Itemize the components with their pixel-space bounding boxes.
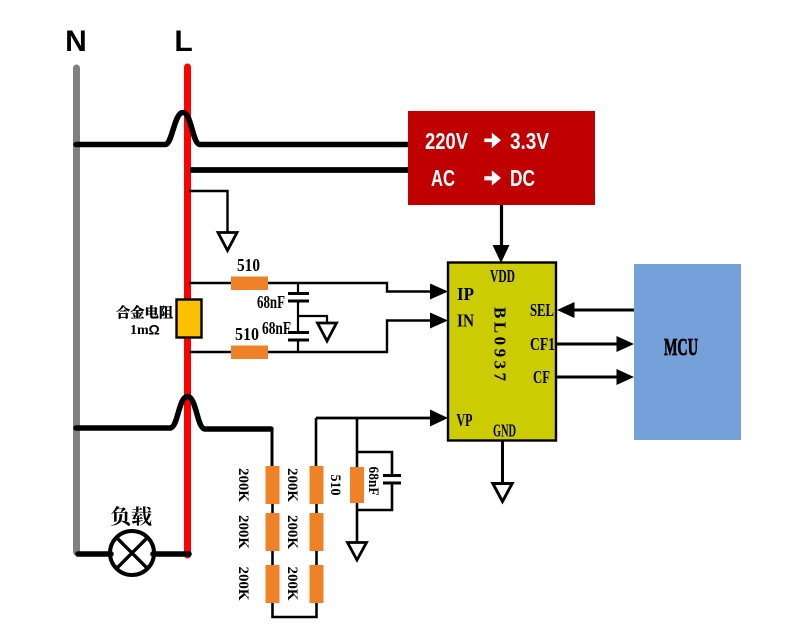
arrow CF1 into MCU bbox=[617, 336, 635, 352]
ground G4 (open triangle) bbox=[348, 543, 367, 561]
svg-text:IP: IP bbox=[457, 284, 474, 304]
arrow into IP bbox=[430, 284, 448, 300]
wire CF to MCU bbox=[556, 376, 617, 379]
svg-text:68nF: 68nF bbox=[257, 292, 285, 312]
wire load drop to divider bbox=[271, 428, 274, 466]
wire R4-R5 bbox=[271, 551, 274, 565]
wire lamp to L bbox=[153, 551, 189, 557]
wire R6-R7 bbox=[315, 504, 318, 513]
resistor R2 510 bbox=[231, 346, 268, 360]
wire L to converter bbox=[190, 167, 408, 173]
resistor R3 200K bbox=[266, 466, 280, 504]
arrow into SEL bbox=[557, 302, 575, 318]
wire R9 branch bbox=[356, 418, 359, 467]
label load 负载 bbox=[111, 506, 152, 526]
svg-text:AC: AC bbox=[431, 165, 455, 191]
wire gray to lamp bbox=[78, 551, 111, 557]
svg-text:510: 510 bbox=[235, 324, 259, 344]
svg-text:510: 510 bbox=[327, 475, 343, 496]
svg-text:N: N bbox=[65, 25, 87, 58]
label alloy resistor 合金电阻 bbox=[116, 305, 173, 318]
chip BL0937 body bbox=[448, 263, 556, 441]
svg-text:510: 510 bbox=[237, 255, 260, 275]
wire load line bottom with hop bbox=[76, 397, 271, 430]
converter arrow 1 bbox=[484, 133, 501, 149]
ground G1 (open triangle) bbox=[218, 233, 237, 251]
svg-text:1m: 1m bbox=[130, 323, 149, 338]
wire neutral line N (gray vertical) bbox=[73, 68, 80, 552]
AC-DC converter box bbox=[408, 111, 595, 205]
wire divider bottom link bbox=[273, 603, 317, 617]
arrow into VDD bbox=[493, 245, 510, 263]
wire SEL from MCU bbox=[574, 309, 634, 312]
capacitor C2 68nF bbox=[297, 302, 299, 331]
MCU box bbox=[634, 264, 741, 440]
svg-text:CF1: CF1 bbox=[530, 334, 555, 354]
wire VDD supply bbox=[500, 205, 503, 246]
converter arrow 2 bbox=[484, 170, 501, 186]
resistor R6 200K bbox=[310, 466, 324, 504]
svg-text:200K: 200K bbox=[284, 515, 300, 550]
svg-text:MCU: MCU bbox=[664, 335, 698, 361]
svg-text:VP: VP bbox=[457, 410, 473, 430]
svg-text:SEL: SEL bbox=[530, 300, 554, 320]
wire R3-R4 bbox=[271, 504, 274, 513]
wire caps midpoint to ground bbox=[298, 316, 327, 323]
svg-text:220V: 220V bbox=[425, 128, 469, 154]
ground G2 (open triangle) bbox=[318, 323, 337, 341]
arrow into IN bbox=[430, 313, 448, 329]
wire R9 bottom to ground bbox=[356, 503, 359, 543]
wire GND to ground bbox=[501, 441, 504, 484]
shunt resistor (alloy) body bbox=[177, 300, 202, 338]
svg-text:68nF: 68nF bbox=[365, 467, 381, 496]
wire top N horizontal with hop bbox=[76, 113, 408, 145]
resistor R1 510 bbox=[231, 277, 268, 291]
resistor R5 200K bbox=[266, 565, 280, 603]
svg-text:DC: DC bbox=[510, 165, 535, 191]
load lamp symbol bbox=[110, 531, 154, 575]
svg-text:CF: CF bbox=[533, 367, 550, 387]
svg-text:L: L bbox=[174, 25, 192, 58]
svg-text:VDD: VDD bbox=[490, 266, 515, 286]
wire L tap to ground bbox=[189, 191, 228, 232]
resistor R4 200K bbox=[266, 513, 280, 551]
svg-text:200K: 200K bbox=[235, 468, 251, 503]
resistor R8 200K bbox=[310, 565, 324, 603]
wire IN sense (lower) bbox=[189, 321, 431, 353]
svg-text:GND: GND bbox=[493, 421, 516, 441]
svg-text:200K: 200K bbox=[235, 515, 251, 550]
resistor R9 510 bbox=[350, 467, 364, 503]
wire VP net bbox=[316, 417, 431, 420]
wire chain2 top bbox=[315, 418, 318, 466]
svg-text:IN: IN bbox=[457, 311, 474, 331]
arrow CF into MCU bbox=[617, 369, 635, 385]
arrow into VP bbox=[430, 410, 448, 427]
wire CF1 to MCU bbox=[556, 343, 617, 346]
wire R7-R8 bbox=[315, 551, 318, 565]
svg-text:Ω: Ω bbox=[149, 322, 160, 338]
wire live line L (red vertical) bbox=[184, 67, 191, 555]
capacitor C3 68nF loop bbox=[357, 452, 392, 474]
svg-text:200K: 200K bbox=[284, 567, 300, 602]
svg-text:68nF: 68nF bbox=[262, 318, 291, 338]
ground G3 (open triangle) bbox=[493, 484, 512, 502]
svg-text:200K: 200K bbox=[235, 567, 251, 602]
resistor R7 200K bbox=[310, 513, 324, 551]
wire IP sense (upper) bbox=[189, 283, 431, 292]
capacitor C1 68nF bbox=[297, 283, 299, 292]
svg-text:200K: 200K bbox=[284, 468, 300, 503]
svg-text:3.3V: 3.3V bbox=[510, 128, 550, 154]
